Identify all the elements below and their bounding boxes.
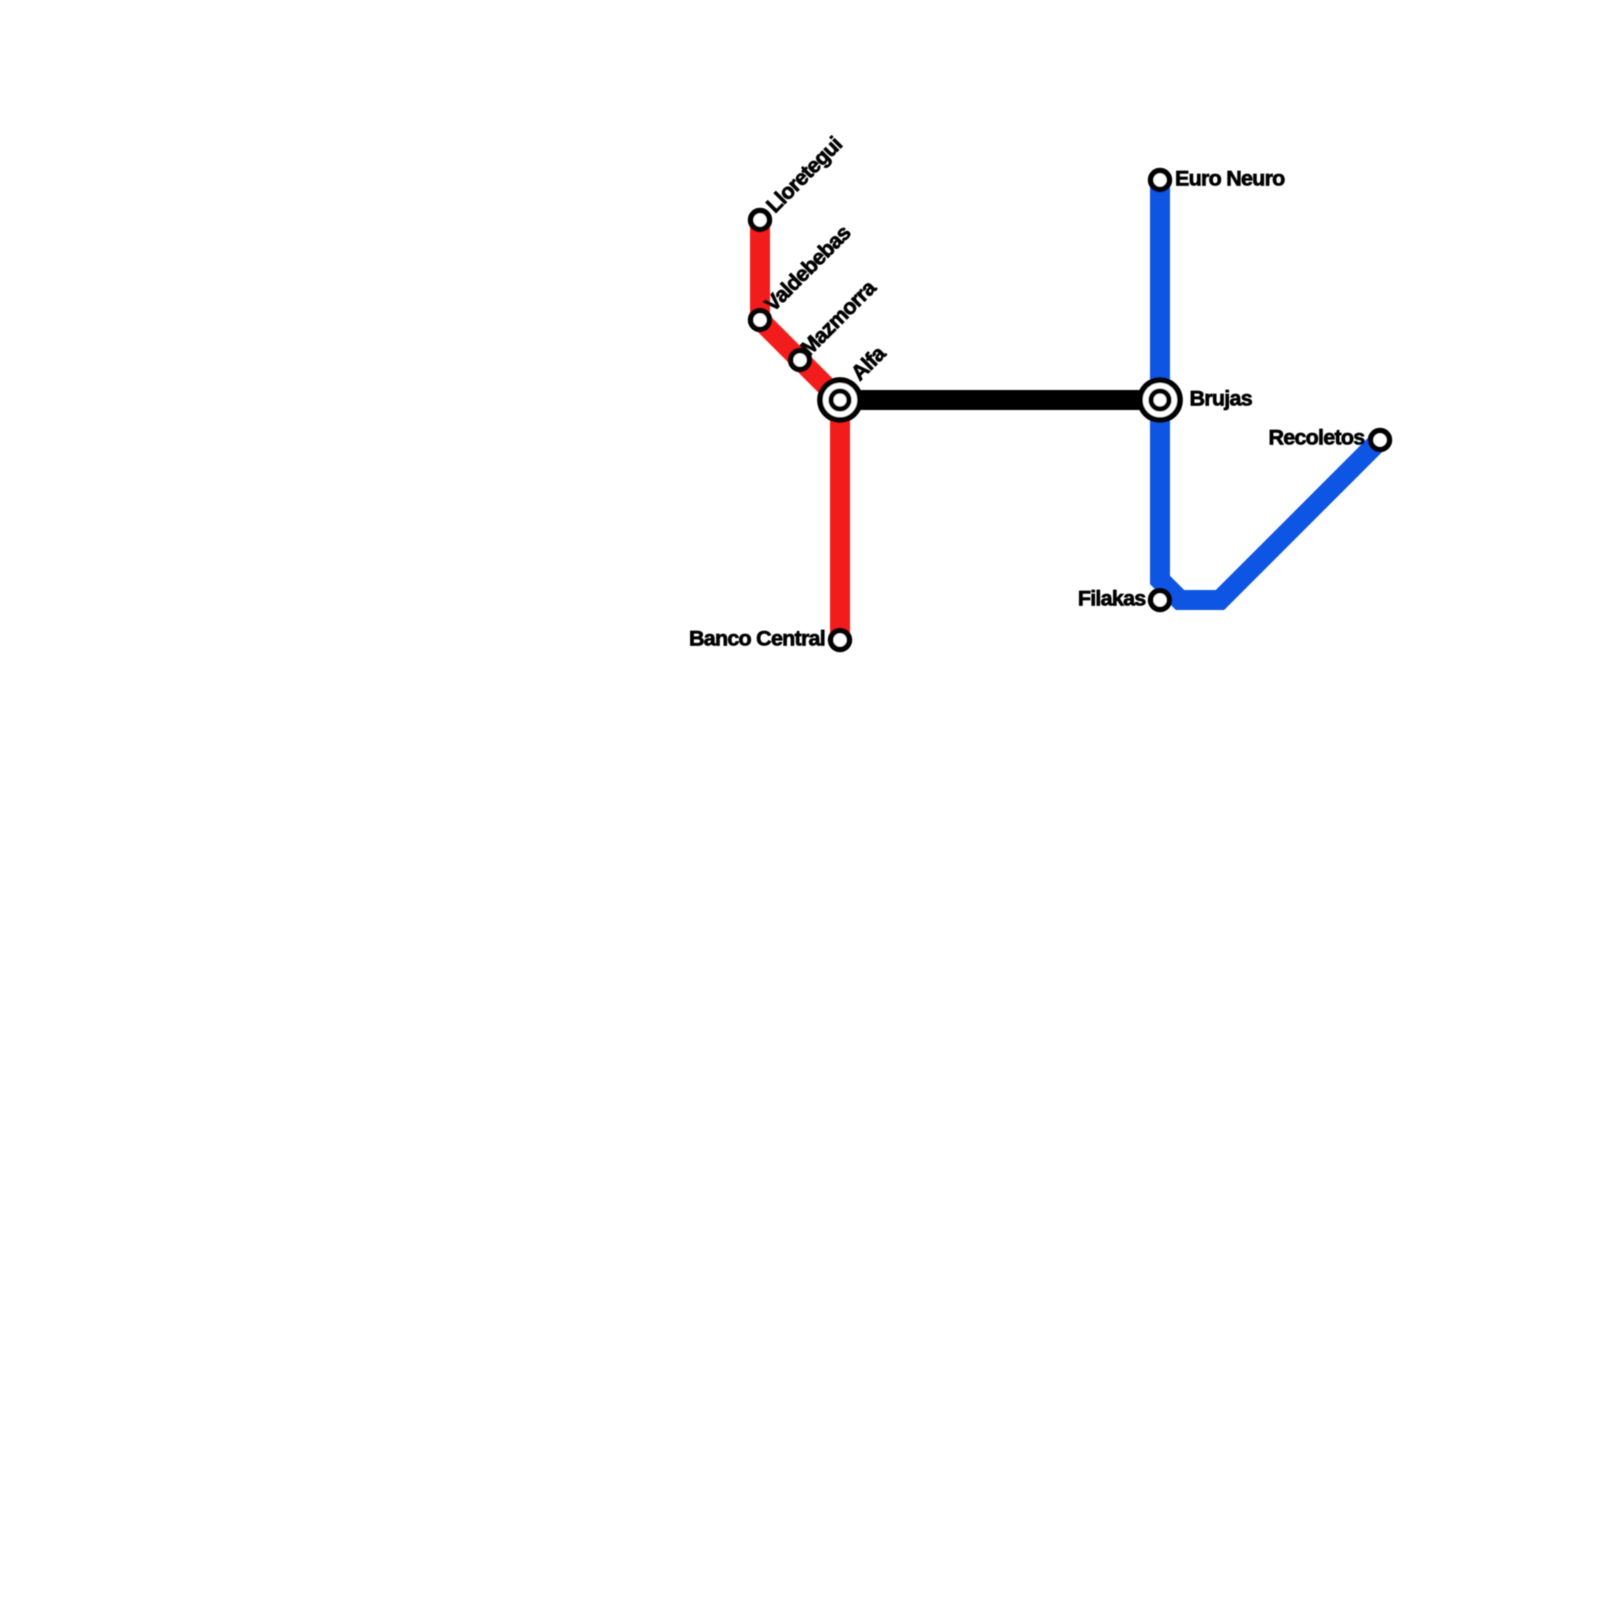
- interchange Brujas: [1140, 380, 1180, 420]
- label Mazmorra: [796, 275, 882, 361]
- station Recoletos: [1371, 431, 1390, 450]
- svg-text:Banco Central: Banco Central: [689, 627, 825, 651]
- station Banco Central: [831, 631, 850, 650]
- label Alfa: [846, 340, 891, 385]
- svg-text:Filakas: Filakas: [1078, 587, 1146, 611]
- interchange Alfa: [820, 380, 860, 420]
- station Filakas: [1151, 591, 1170, 610]
- label Valdebebas: [760, 220, 856, 316]
- svg-text:Euro Neuro: Euro Neuro: [1175, 167, 1285, 191]
- blue line Euro Neuro-Brujas-Filakas-Recoletos: [1160, 180, 1380, 600]
- red line Lloretegui-Valdebebas-Mazmorra-Alfa-Banco Central: [760, 220, 840, 640]
- svg-text:Recoletos: Recoletos: [1268, 426, 1365, 450]
- svg-text:Brujas: Brujas: [1190, 387, 1253, 411]
- station Euro Neuro: [1151, 171, 1170, 190]
- station Mazmorra: [791, 351, 810, 370]
- station Valdebebas: [751, 311, 770, 330]
- label Lloretegui: [762, 132, 847, 217]
- station Lloretegui: [751, 211, 770, 230]
- black line Alfa-Brujas: [840, 390, 1160, 410]
